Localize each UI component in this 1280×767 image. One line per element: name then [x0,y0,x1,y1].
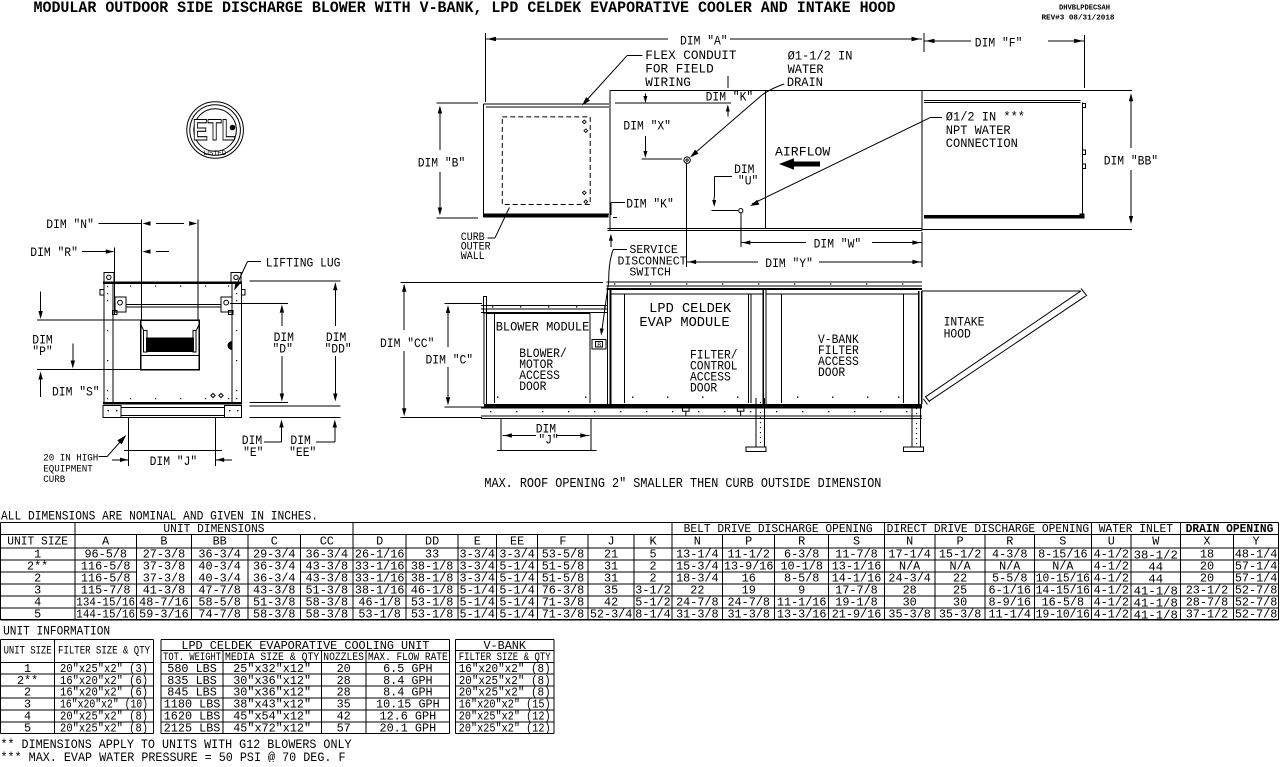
side view: evap module door [610,294,762,403]
title: drawing name [34,0,896,17]
side view: floor band [484,404,922,408]
svg-text:REV#3 08/31/2018: REV#3 08/31/2018 [1042,15,1116,23]
side view: divider evap/v-bank module [763,290,766,404]
svg-text:CONNECTION: CONNECTION [946,137,1018,151]
note: max evap water pressure [1,751,346,765]
dimension DIM "B" [418,103,478,218]
svg-text:UNIT INFORMATION: UNIT INFORMATION [3,624,110,638]
svg-text:FOR FIELD: FOR FIELD [645,63,713,77]
front view: left corner plate with hole [104,273,114,283]
svg-text:WIRING: WIRING [645,76,691,90]
note: G12 blowers [1,738,352,752]
svg-text:5: 5 [24,721,31,735]
svg-text:CURB: CURB [43,474,65,486]
svg-text:58-3/8: 58-3/8 [253,608,295,622]
side view: intake hood [922,288,1087,404]
dimension DIM "D" [230,304,294,402]
dimension DIM "BB" [1104,93,1158,224]
svg-text:BELT DRIVE DISCHARGE OPENING: BELT DRIVE DISCHARGE OPENING [684,522,873,536]
svg-text:37-1/2: 37-1/2 [1186,608,1228,622]
top view: dashed curb inner square [502,117,590,205]
side view: right wall of v-bank module [919,291,922,404]
svg-text:DRAIN: DRAIN [787,76,823,90]
label: AIRFLOW with arrow [775,145,831,170]
label: filter/control access door [690,349,738,396]
note: all dimensions are nominal [1,510,318,524]
svg-text:21-9/16: 21-9/16 [832,608,882,622]
svg-text:57: 57 [337,721,351,735]
svg-text:53-1/8: 53-1/8 [411,608,453,622]
svg-text:DOOR: DOOR [690,382,718,396]
label: blower module [496,320,590,335]
svg-text:DIM "BB": DIM "BB" [1104,155,1158,169]
front view: bottom base band with corner plates [103,405,242,417]
top view: hood module box (DIM F) [922,91,1132,230]
side view: left support leg [746,398,766,451]
dimension DIM "J" side view [503,423,590,448]
svg-text:DIM "N": DIM "N" [46,218,94,232]
unit dimensions table: data rows [27,548,1277,623]
svg-text:52-3/4: 52-3/4 [590,608,632,622]
dimension DIM "DD" [250,281,352,418]
svg-text:Ø1/2 IN ***: Ø1/2 IN *** [946,111,1025,125]
label: v-bank filter access door [818,333,859,380]
svg-text:** DIMENSIONS APPLY TO UNITS W: ** DIMENSIONS APPLY TO UNITS WITH G12 BL… [1,738,352,752]
svg-text:144-15/16: 144-15/16 [76,608,135,622]
label: curb outer wall with leader [461,208,510,264]
svg-text:11-1/4: 11-1/4 [989,608,1031,622]
svg-text:DHVBLPDECSAH: DHVBLPDECSAH [1059,5,1110,13]
dimension DIM "EE" [289,420,337,461]
svg-text:MODULAR OUTDOOR SIDE DISCHARGE: MODULAR OUTDOOR SIDE DISCHARGE BLOWER WI… [34,0,896,17]
dimension DIM "U" [711,163,758,211]
note: max roof opening [484,477,881,492]
svg-text:FILTER SIZE & QTY: FILTER SIZE & QTY [58,646,150,658]
svg-text:"P": "P" [32,345,52,359]
label: blower/motor access door [519,347,567,394]
label: NPT water connection with leader [750,111,1025,207]
dimension DIM "R" (lug offset) [30,246,169,315]
wire: water connection down to dim W [740,213,742,247]
svg-text:SWITCH: SWITCH [630,267,671,280]
svg-text:5-1/4: 5-1/4 [460,608,495,622]
side view: right support leg [904,404,924,451]
label: unit information [3,624,110,638]
svg-text:EVAP MODULE: EVAP MODULE [639,316,729,331]
side view: blower module door [487,314,590,404]
unit dimensions table: grid [1,523,1279,620]
svg-text:ETL: ETL [193,113,235,147]
svg-text:MAX. ROOF OPENING 2" SMALLER T: MAX. ROOF OPENING 2" SMALLER THEN CURB O… [484,477,881,492]
dimension DIM "S" [38,372,99,400]
side view: tall roof band over evap and v-bank modules [607,282,923,290]
front view: left lifting lug bracket [113,297,126,315]
svg-text:4-1/2: 4-1/2 [1094,608,1129,622]
side view: blower module left post [484,297,487,404]
svg-text:41-1/8: 41-1/8 [1134,609,1178,623]
svg-text:"DD": "DD" [325,343,352,357]
dimension DIM "K" top [615,76,753,116]
side view: drain tees under floor [683,408,744,416]
unit size / filter table grid [1,639,154,735]
svg-text:58-3/8: 58-3/8 [306,608,348,622]
rev block: drawing number and revision date [1042,5,1116,23]
svg-text:DIM "F": DIM "F" [975,37,1023,51]
dimension DIM "A" overall length [486,33,922,102]
svg-text:BLOWER MODULE: BLOWER MODULE [496,320,590,335]
top view: water drain fitting [684,157,690,163]
label: service disconnect switch with leaders [600,234,687,336]
svg-text:35-3/8: 35-3/8 [939,608,981,622]
v-bank filter table grid [455,639,554,736]
svg-text:31-3/8: 31-3/8 [727,608,769,622]
front view: lug connecting bar [126,305,221,308]
svg-text:ALL DIMENSIONS ARE NOMINAL AND: ALL DIMENSIONS ARE NOMINAL AND GIVEN IN … [1,510,318,524]
svg-text:HOOD: HOOD [944,328,971,342]
front view: drain fitting on right frame [228,341,233,350]
ETL listed logo [187,102,244,159]
dimension DIM "Y" [687,257,922,271]
dimension DIM "C" [426,304,485,407]
dimension DIM "N" (louver width) [46,218,198,320]
front view: side tabs [100,290,245,296]
svg-text:DRAIN OPENING: DRAIN OPENING [1186,522,1274,536]
dimension DIM "P" [32,292,141,370]
svg-text:20"x25"x2" (8): 20"x25"x2" (8) [60,721,148,735]
svg-text:59-3/16: 59-3/16 [139,608,189,622]
side view: v-bank door [766,294,918,403]
svg-text:Ø1-1/2 IN: Ø1-1/2 IN [788,50,853,64]
dimension DIM "K" left bottom [611,198,674,218]
svg-text:5: 5 [34,608,41,622]
top view: small diamond marks in curb box [582,120,587,203]
label: water drain with leader [690,50,852,158]
unit dimensions table: group headers [163,522,1273,536]
svg-text:WATER: WATER [788,63,824,77]
top view: module divider wire [764,91,766,229]
label: LPD CELDEK EVAP MODULE [639,302,732,331]
svg-text:DIM "X": DIM "X" [623,120,671,134]
svg-text:V-BANK: V-BANK [483,639,526,653]
dimension DIM "W" [741,232,922,267]
svg-text:DOOR: DOOR [818,366,846,380]
dimension DIM "CC" [380,282,603,417]
svg-text:DOOR: DOOR [519,380,547,394]
svg-text:"EE": "EE" [289,446,316,460]
svg-text:LISTED: LISTED [204,150,227,157]
svg-text:DIM "S": DIM "S" [52,386,100,400]
svg-text:"U": "U" [738,175,758,189]
svg-text:UNIT SIZE: UNIT SIZE [4,646,52,658]
dimension DIM "F" hood module length [924,33,1085,88]
side view: base rail [481,408,922,419]
svg-text:*** MAX. EVAP WATER PRESSURE =: *** MAX. EVAP WATER PRESSURE = 50 PSI @ … [1,751,346,762]
svg-text:13-3/16: 13-3/16 [777,608,827,622]
svg-text:31-3/8: 31-3/8 [676,608,718,622]
label: 20 in high equipment curb with leader [43,435,126,486]
svg-text:WALL: WALL [461,251,485,263]
front view: 20 in equipment curb [124,418,222,450]
dimension DIM "E" [242,420,284,461]
svg-text:DIM "K": DIM "K" [706,91,754,105]
svg-text:71-3/8: 71-3/8 [542,608,584,622]
svg-text:AIRFLOW: AIRFLOW [775,145,831,160]
side view: disconnect switch box with B [592,340,606,349]
svg-text:DIM "Y": DIM "Y" [765,257,813,271]
lpd celdek evaporative cooling unit table grid [161,639,450,736]
svg-text:45"x72"x12": 45"x72"x12" [233,721,311,735]
svg-text:B: B [597,342,601,349]
svg-text:"J": "J" [538,434,558,448]
top view: curb outer wall box [484,104,610,218]
svg-text:53-1/8: 53-1/8 [358,608,400,622]
svg-text:74-7/8: 74-7/8 [198,608,240,622]
top view: main module box [608,91,922,231]
svg-text:FLEX CONDUIT: FLEX CONDUIT [645,49,737,63]
svg-text:NPT WATER: NPT WATER [946,124,1011,138]
svg-text:5-1/4: 5-1/4 [499,608,534,622]
front view: unit frame box [103,282,242,404]
svg-text:DIM "A": DIM "A" [680,35,728,49]
front view: right corner plate with hole [231,273,241,283]
label: flex conduit for field wiring with leader [582,49,737,106]
svg-text:DIM "C": DIM "C" [426,354,474,368]
svg-text:LIFTING LUG: LIFTING LUG [266,257,341,271]
front view: small diamond vents [211,393,223,397]
svg-text:35-3/8: 35-3/8 [888,608,930,622]
side view: divider blower/evap module [608,290,611,404]
label: intake hood [944,316,985,342]
side view: blower module roof band [481,305,608,312]
svg-text:DIM "R": DIM "R" [30,246,78,260]
front view: louver opening [141,320,199,370]
side view: curb under blower module [497,419,596,451]
svg-text:20"x25"x2" (12): 20"x25"x2" (12) [459,721,551,735]
front view: right lifting lug bracket [221,297,233,315]
svg-text:"E": "E" [243,446,263,460]
svg-text:DIM "B": DIM "B" [418,157,466,171]
unit dimensions table: column letter headers [7,535,1259,549]
svg-text:19-10/16: 19-10/16 [1036,608,1090,622]
top view: water connection fitting [739,209,743,213]
svg-text:20.1 GPH: 20.1 GPH [380,721,437,735]
svg-text:DIM "J": DIM "J" [150,455,198,469]
svg-text:LPD CELDEK EVAPORATIVE COOLING: LPD CELDEK EVAPORATIVE COOLING UNIT [181,639,429,653]
svg-text:DIM "W": DIM "W" [814,238,862,252]
svg-text:52-7/8: 52-7/8 [1235,608,1277,622]
svg-text:LPD CELDEK: LPD CELDEK [649,302,732,317]
svg-text:DIM "K": DIM "K" [626,198,674,212]
wire: drain pipe down to dim Y [686,164,688,268]
svg-text:DIM "CC": DIM "CC" [380,337,434,351]
svg-text:"D": "D" [273,343,293,357]
svg-text:2125 LBS: 2125 LBS [164,721,221,735]
label: lifting lug with leader [234,257,340,291]
dimension DIM "X" [623,94,681,160]
svg-text:W: W [1152,535,1160,549]
dimension DIM "J" front view [112,450,232,469]
svg-text:8-1/4: 8-1/4 [635,608,670,622]
